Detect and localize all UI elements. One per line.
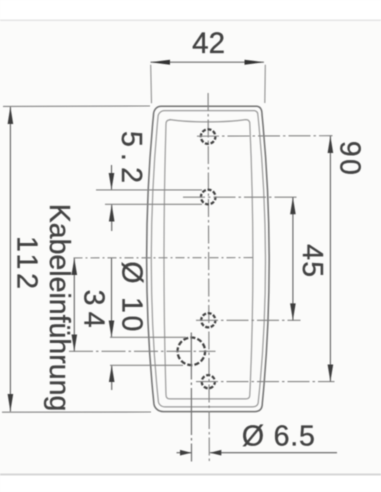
dia10-dim upper extension line (big hole top tangent) [110, 336, 186, 338]
42-dim right arrow [245, 60, 264, 65]
112-dim bottom arrow [8, 394, 14, 412]
34-dim bottom arrow (points down) [72, 335, 78, 352]
white strip below separator [0, 476, 381, 492]
34-dim top extension / horizontal reference centerline [74, 257, 255, 259]
svg-text:Ø 6.5: Ø 6.5 [242, 421, 315, 453]
main vertical centerline [208, 93, 209, 462]
5.2-dim lower extension line (hole H2 bottom tangent) [105, 203, 202, 205]
svg-text:5.2: 5.2 [115, 131, 147, 183]
svg-text:Ø 10: Ø 10 [116, 261, 148, 331]
hole H4 (dashed circle) [202, 375, 215, 388]
hole H2 horizontal centerline / leader to 45-dim [183, 196, 300, 198]
dia10-dim upper segment + down arrow [111, 258, 113, 337]
svg-text:42: 42 [192, 27, 225, 60]
112-dim bottom extension line [2, 411, 151, 413]
svg-text:Kabeleinführung: Kabeleinführung [43, 204, 75, 412]
svg-text:112: 112 [11, 236, 43, 289]
5.2-dim upper extension line (hole H2 top tangent) [96, 189, 202, 191]
inner rectangle (lens face) [164, 120, 253, 399]
big hole horizontal centerline (also 34-dim extension) [69, 350, 216, 352]
34-dim top arrow (points up) [72, 258, 78, 275]
big hole vertical centerline down to 6.5-dim [190, 333, 192, 462]
112-dim top arrow [8, 107, 14, 125]
45-dim: dimension line [292, 197, 294, 320]
bottom page separator line [0, 474, 381, 476]
45-dim bottom arrow [290, 303, 296, 320]
42-dim left extension line [150, 65, 153, 103]
hole H3 horizontal centerline / leader to 45-dim [196, 319, 301, 321]
6.5-dim: left stub + right-pointing arrow [177, 452, 192, 454]
hole H1 (dashed circle) [201, 129, 216, 144]
34-dim: dimension line [73, 258, 75, 351]
90-dim top arrow [328, 136, 334, 153]
hole H2 (dashed circle) [201, 190, 216, 205]
hole H1 horizontal centerline / leader to 90-dim [197, 135, 333, 138]
45-dim top arrow [290, 197, 296, 214]
5.2-dim upper tail + down arrow [111, 165, 113, 190]
lamp body outer contour [147, 106, 270, 411]
90-dim: dimension line [329, 136, 331, 382]
5.2-dim lower tail + up arrow [111, 204, 113, 231]
lamp body second (inner offset) contour [151, 111, 265, 407]
6.5-dim: right line + left-pointing arrow [210, 452, 337, 454]
90-dim bottom arrow [328, 365, 334, 382]
top page separator line [0, 19, 381, 21]
svg-text:34: 34 [78, 290, 110, 328]
white strip above separator [0, 0, 381, 19]
42-dim right extension line [264, 65, 267, 103]
dia10-dim lower segment + up arrow [111, 365, 113, 390]
hole H3 (dashed circle) [201, 313, 215, 327]
svg-text:90: 90 [334, 141, 366, 175]
42-dim left arrow [151, 60, 171, 65]
svg-text:45: 45 [296, 244, 328, 277]
112-dim: dimension line [9, 107, 11, 412]
big cable-entry hole (dashed circle) [178, 338, 206, 366]
112-dim top extension line [3, 105, 150, 107]
dia10-dim lower extension line (big hole bottom tangent) [110, 364, 183, 366]
42-dim: dimension line [151, 61, 264, 63]
hole H4 horizontal centerline / leader to 90-dim [196, 381, 335, 383]
